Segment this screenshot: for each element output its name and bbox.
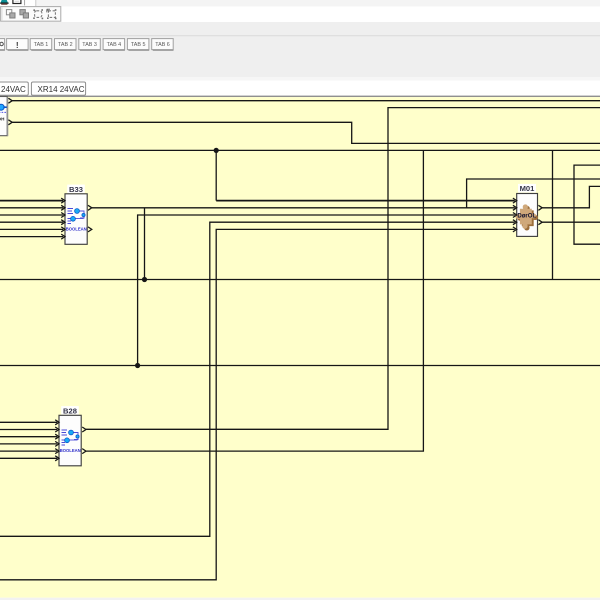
wire B28.in1 [0,421,57,423]
wire branch x144 down [144,208,146,280]
wire M01.out1 to right edge [542,186,600,207]
M01 pin in1 [513,198,517,203]
wire B28.in2 [0,429,57,431]
wire drop x423 to B28.out2 [86,150,423,451]
M01 pin in4 [513,220,517,225]
M01 pin out2 [538,220,542,225]
B33 pin in6 [61,234,65,239]
B33 body [65,194,87,245]
B33 pin in1 [61,198,65,203]
svg-text:TAB 4: TAB 4 [107,42,122,48]
wire B33.out1 to M01.in2 [92,207,515,209]
U2 pin out2 [8,120,12,125]
canvas top border [0,96,600,98]
svg-text:XR14 24VAC: XR14 24VAC [38,85,85,94]
buttons TAB 1..6 [30,39,173,51]
svg-text:BOOLEAN: BOOLEAN [60,448,81,453]
toolbar row1 background [0,0,36,6]
svg-text:TAB 6: TAB 6 [155,42,170,48]
floating toolbar box [1,7,61,22]
wire B33.in5 [0,228,63,230]
component U2 (left edge, clipped) [0,97,12,137]
B28 pin in4 [55,441,59,446]
B28 pin in2 [55,427,59,432]
toolbar icon: stamp (teal), clipped at top [1,0,8,3]
tab panel background [0,22,600,77]
B28 pin out1 [82,427,86,432]
wire B33.in6 [0,236,63,238]
wire corner feed M01 via x466 [467,179,600,208]
B28 pin in1 [55,420,59,425]
svg-text:M01: M01 [520,184,536,193]
svg-text:TAB 5: TAB 5 [131,42,146,48]
icon: order squares A [6,10,11,15]
B33 pin in2 [61,205,65,210]
wire B33.in4 [0,221,63,223]
button ! [7,39,29,51]
wire U2.out1 long horizontal [12,100,600,102]
wire M01.in5 feed [0,229,515,579]
svg-text:B33: B33 [69,185,83,194]
U2 pin out1 [8,98,12,103]
wire M01.in3 feed [138,215,515,366]
B28 pin in3 [55,434,59,439]
wire right bracket upper [574,165,600,244]
sheet tab: XR14 24VAC [31,82,85,95]
svg-text:24VAC: 24VAC [1,85,26,94]
B33 pin in3 [61,213,65,218]
wire M01.in4 feed [0,222,515,536]
wire B28.out1 top-right run [86,108,600,430]
svg-text:TAB 2: TAB 2 [58,42,73,48]
B28 pin in6 [55,456,59,461]
component B28 [55,406,86,466]
icon: marquee select C [35,11,42,18]
wire B28.in3 [0,436,57,438]
B28 pin out2 [82,449,86,454]
U2 icon [0,104,4,110]
sheet tab: ...24VAC (clipped) [0,82,28,95]
svg-text:TAB 1: TAB 1 [34,42,49,48]
B33 pin out2 (unconnected) [88,227,92,232]
icon: marquee move D [48,11,55,18]
svg-text:B28: B28 [63,406,77,415]
toolbar separator [24,0,26,5]
B28 icon [62,430,79,445]
wire B33.in3 [0,214,63,216]
wire B28.in4 [0,443,57,445]
B33 icon [68,209,85,224]
bottom strip [0,598,600,600]
wire B28.in6 [0,457,57,459]
icon: order squares B [20,10,25,15]
M01 puzzle icon shadow [517,206,538,230]
toolbar icon: screen/button [13,0,21,4]
junction dot at 144,279 [142,277,147,282]
wire B33.in2 [0,207,63,209]
sheet tab strip [0,81,600,96]
M01 pin in2 [513,205,517,210]
wire U2.out2 with step [12,122,600,143]
B33 label [67,185,85,194]
wire long net y365 [0,365,600,367]
wire drop x552 [552,150,554,279]
wire M01.in1 feed from junction [215,150,217,200]
B28 body [59,415,81,466]
component M01 [513,184,542,237]
button partial at left [0,39,5,51]
wire long net y150 [0,149,600,151]
junction dot at 216,150 [214,148,219,153]
wire M01.out2 to right edge [542,221,600,223]
toolbar section edge [35,0,37,6]
svg-text:!: ! [16,40,19,50]
component B33 [61,185,92,245]
svg-text:DørOL: DørOL [517,212,536,219]
wire B28.in5 [0,450,57,452]
M01 label [518,184,536,193]
B33 pin in4 [61,220,65,225]
M01 pin in3 [513,213,517,218]
B28 label [61,406,79,415]
M01 body [517,194,538,237]
wire long net y279 [0,279,600,281]
M01 puzzle icon [516,204,537,228]
wire B33.in1 [0,200,63,202]
svg-text:TAB 3: TAB 3 [82,42,97,48]
B33 pin out1 [88,205,92,210]
junction dot at 137,365 [135,363,140,368]
svg-text:OH: OH [0,117,5,122]
B28 pin in5 [55,449,59,454]
M01 pin out1 [538,205,542,210]
B33 pin in5 [61,227,65,232]
M01 pin in5 [513,227,517,232]
svg-text:BOOLEAN: BOOLEAN [66,227,87,232]
